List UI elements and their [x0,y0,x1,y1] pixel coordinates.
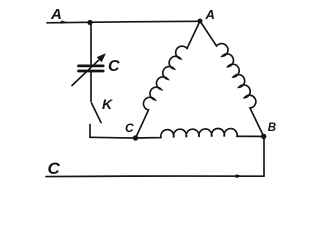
wire: node B down lead [263,136,265,176]
node A (delta apex) [198,19,203,24]
wire: phase C line [46,175,264,178]
winding L3 (delta side C-B) [136,129,264,138]
variable capacitor arrow [72,60,99,86]
svg-text:A: A [205,7,215,22]
wire: switch lower lead [89,125,91,138]
svg-text:C: C [108,58,120,75]
svg-text:A: A [50,6,62,23]
winding L1 (delta side A-C) [136,21,200,138]
current arrow on phase A line [61,21,67,24]
wire: capacitor to switch [90,72,92,101]
svg-text:K: K [102,96,113,112]
capacitor C bottom plate [79,70,104,73]
node B (delta vertex) [261,134,266,139]
svg-text:C: C [48,159,61,178]
wire: capacitor upper lead [90,23,92,65]
winding L2 (delta side A-B) [200,21,264,136]
wire: switch to node C [90,136,133,139]
svg-text:B: B [268,122,276,134]
wire: phase A feed line [47,21,200,23]
svg-text:C: C [125,121,134,135]
current arrow on phase C line [236,175,243,178]
node C (delta vertex) [133,135,138,140]
node: junction of capacitor branch [87,20,92,25]
capacitor C top plate [79,65,104,68]
switch K blade [92,103,102,123]
